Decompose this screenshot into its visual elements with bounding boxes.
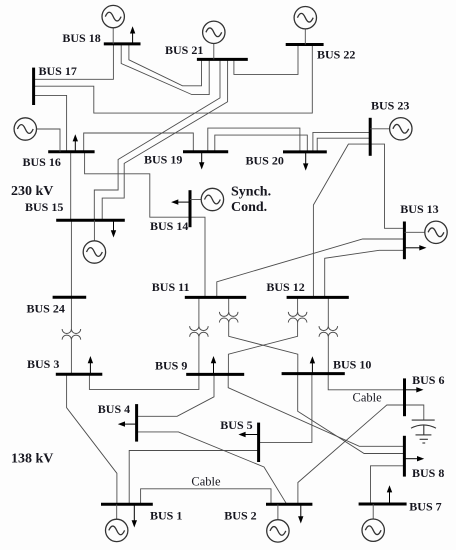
svg-text:BUS 5: BUS 5 xyxy=(220,418,252,432)
svg-text:BUS 21: BUS 21 xyxy=(165,43,203,57)
wire line 7-8 xyxy=(371,466,405,504)
svg-text:Synch.: Synch. xyxy=(231,185,271,200)
load arrow bus 2 xyxy=(298,504,303,523)
svg-text:BUS 6: BUS 6 xyxy=(412,373,444,387)
load arrow bus 6 xyxy=(405,387,424,392)
svg-text:BUS 9: BUS 9 xyxy=(155,359,187,373)
wire line 14-16 xyxy=(85,152,190,217)
wire line 21-22 xyxy=(234,45,298,75)
svg-text:BUS 4: BUS 4 xyxy=(98,402,130,416)
bus 16 xyxy=(48,150,94,153)
transformer T10-12 xyxy=(319,326,338,337)
bus 18 xyxy=(104,42,141,45)
generator G2 xyxy=(267,504,289,542)
wire line 16-17 xyxy=(34,95,67,151)
load arrow bus 8 xyxy=(404,456,424,461)
svg-text:BUS 12: BUS 12 xyxy=(266,280,304,294)
svg-text:Cond.: Cond. xyxy=(231,200,267,215)
svg-text:Cable: Cable xyxy=(353,390,383,404)
wire line 20-23 circuit 2 xyxy=(317,138,370,152)
wire line 8-10 xyxy=(298,374,405,454)
wire line 16-19 xyxy=(84,133,194,152)
wire line 11-13 xyxy=(217,239,405,297)
svg-text:BUS 3: BUS 3 xyxy=(27,357,59,371)
bus 14 xyxy=(189,190,192,227)
svg-text:138 kV: 138 kV xyxy=(11,452,53,467)
bus 7 xyxy=(359,503,407,506)
bus 19 xyxy=(183,150,228,153)
load arrow bus 18 xyxy=(130,26,135,44)
bus 6 xyxy=(403,378,406,416)
wire line 12-23 xyxy=(313,144,370,297)
load arrow bus 7 xyxy=(387,485,392,504)
svg-text:Cable: Cable xyxy=(191,475,221,489)
wire transformer branch 9-11 xyxy=(198,297,200,326)
load arrow bus 19 xyxy=(199,152,204,170)
svg-text:BUS 15: BUS 15 xyxy=(25,200,63,214)
wire line 15-21 circuit 1 xyxy=(94,59,220,220)
wire line 1-3 xyxy=(67,374,117,504)
transformer T9-12 xyxy=(288,312,307,323)
generator G21 xyxy=(203,21,225,59)
wire transformer branch 10-11 xyxy=(228,297,230,312)
bus 23 xyxy=(369,118,372,156)
bus 17 xyxy=(32,68,35,105)
wire line 19-20 circuit 1 xyxy=(208,128,300,152)
svg-text:230 kV: 230 kV xyxy=(11,184,53,199)
svg-text:BUS 24: BUS 24 xyxy=(27,302,65,316)
wire line 3-9 xyxy=(89,374,198,389)
svg-text:BUS 18: BUS 18 xyxy=(62,31,100,45)
bus 8 xyxy=(403,436,406,477)
bus 10 xyxy=(282,372,345,375)
wire transformer branch 10-12 xyxy=(327,297,329,326)
bus 21 xyxy=(197,58,248,61)
load arrow bus 5 xyxy=(238,432,258,437)
bus 15 xyxy=(56,219,125,222)
svg-text:BUS 17: BUS 17 xyxy=(39,64,77,78)
load arrow bus 4 xyxy=(118,421,137,426)
load arrow bus 13 xyxy=(404,245,426,250)
generator G18 xyxy=(102,5,124,44)
load arrow bus 15 xyxy=(111,220,116,237)
wire line 17-18 xyxy=(34,44,114,79)
wire line 19-20 circuit 2 xyxy=(215,135,307,152)
bus 4 xyxy=(135,404,138,442)
wire line 18-21 circuit 1 xyxy=(121,44,209,95)
bus 1 xyxy=(101,503,153,506)
wire line 20-23 circuit 1 xyxy=(313,132,370,152)
load arrow bus 14 xyxy=(171,199,190,204)
wire line 5-10 xyxy=(259,374,312,443)
svg-text:BUS 8: BUS 8 xyxy=(412,466,444,480)
svg-text:BUS 16: BUS 16 xyxy=(23,155,61,169)
bus 11 xyxy=(185,296,246,299)
svg-text:BUS 1: BUS 1 xyxy=(150,509,182,523)
wire line 11-14 xyxy=(190,217,205,297)
wire line 4-9 xyxy=(137,374,214,416)
generator G13 xyxy=(404,221,447,243)
generator G22 xyxy=(294,7,316,45)
svg-text:BUS 20: BUS 20 xyxy=(246,154,284,168)
reactor at bus 6 xyxy=(405,405,437,443)
generator G7 xyxy=(362,504,384,541)
wire cable 1-2 xyxy=(141,489,271,505)
svg-text:BUS 23: BUS 23 xyxy=(371,99,409,113)
svg-text:BUS 13: BUS 13 xyxy=(400,202,438,216)
svg-text:BUS 7: BUS 7 xyxy=(409,500,441,514)
wire cable 6-10 xyxy=(328,374,404,390)
bus 22 xyxy=(286,43,324,46)
wire line 13-23 xyxy=(370,144,404,228)
svg-text:BUS 14: BUS 14 xyxy=(150,219,188,233)
svg-text:BUS 19: BUS 19 xyxy=(144,153,182,167)
wire transformer branch 9-12 xyxy=(297,297,299,312)
svg-text:BUS 11: BUS 11 xyxy=(152,280,190,294)
bus 20 xyxy=(283,150,327,153)
bus 3 xyxy=(56,373,103,376)
svg-text:BUS 22: BUS 22 xyxy=(317,47,355,61)
wire line 1-5 xyxy=(129,451,258,505)
load arrow bus 9 xyxy=(211,356,216,374)
generator G15 xyxy=(83,220,105,263)
wire line 2-4 xyxy=(137,432,287,504)
wire line 18-21 circuit 2 xyxy=(129,44,202,86)
svg-text:BUS 2: BUS 2 xyxy=(224,509,256,523)
bus 2 xyxy=(266,503,312,506)
transformer T9-11 xyxy=(190,326,209,337)
transformer T10-11 xyxy=(219,312,238,323)
load arrow bus 1 xyxy=(132,504,137,527)
transformer T3-24 xyxy=(62,329,81,340)
wire line 15-16 xyxy=(70,152,72,220)
wire line 2-6 xyxy=(298,405,405,504)
wire line 17-22 xyxy=(34,45,313,114)
bus 13 xyxy=(403,222,406,260)
synchronous condenser at bus 14 xyxy=(190,188,224,210)
wire line 8-9 xyxy=(228,374,404,446)
load arrow bus 16 xyxy=(73,134,78,152)
bus 9 xyxy=(186,373,244,376)
bus 5 xyxy=(257,423,260,462)
bus 12 xyxy=(287,296,349,299)
svg-text:BUS 10: BUS 10 xyxy=(333,358,371,372)
load arrow bus 3 xyxy=(88,356,93,374)
wire line 12-13 xyxy=(325,250,405,297)
load arrow bus 20 xyxy=(303,152,308,171)
load arrow bus 10 xyxy=(310,356,315,373)
bus 24 xyxy=(53,296,87,299)
wire line 15-24 and 3-24 through transformer xyxy=(70,220,72,329)
wire line 15-21 circuit 2 xyxy=(102,59,227,220)
generator G16 xyxy=(14,118,60,152)
generator G1 xyxy=(106,504,128,541)
generator G23 xyxy=(370,118,412,140)
